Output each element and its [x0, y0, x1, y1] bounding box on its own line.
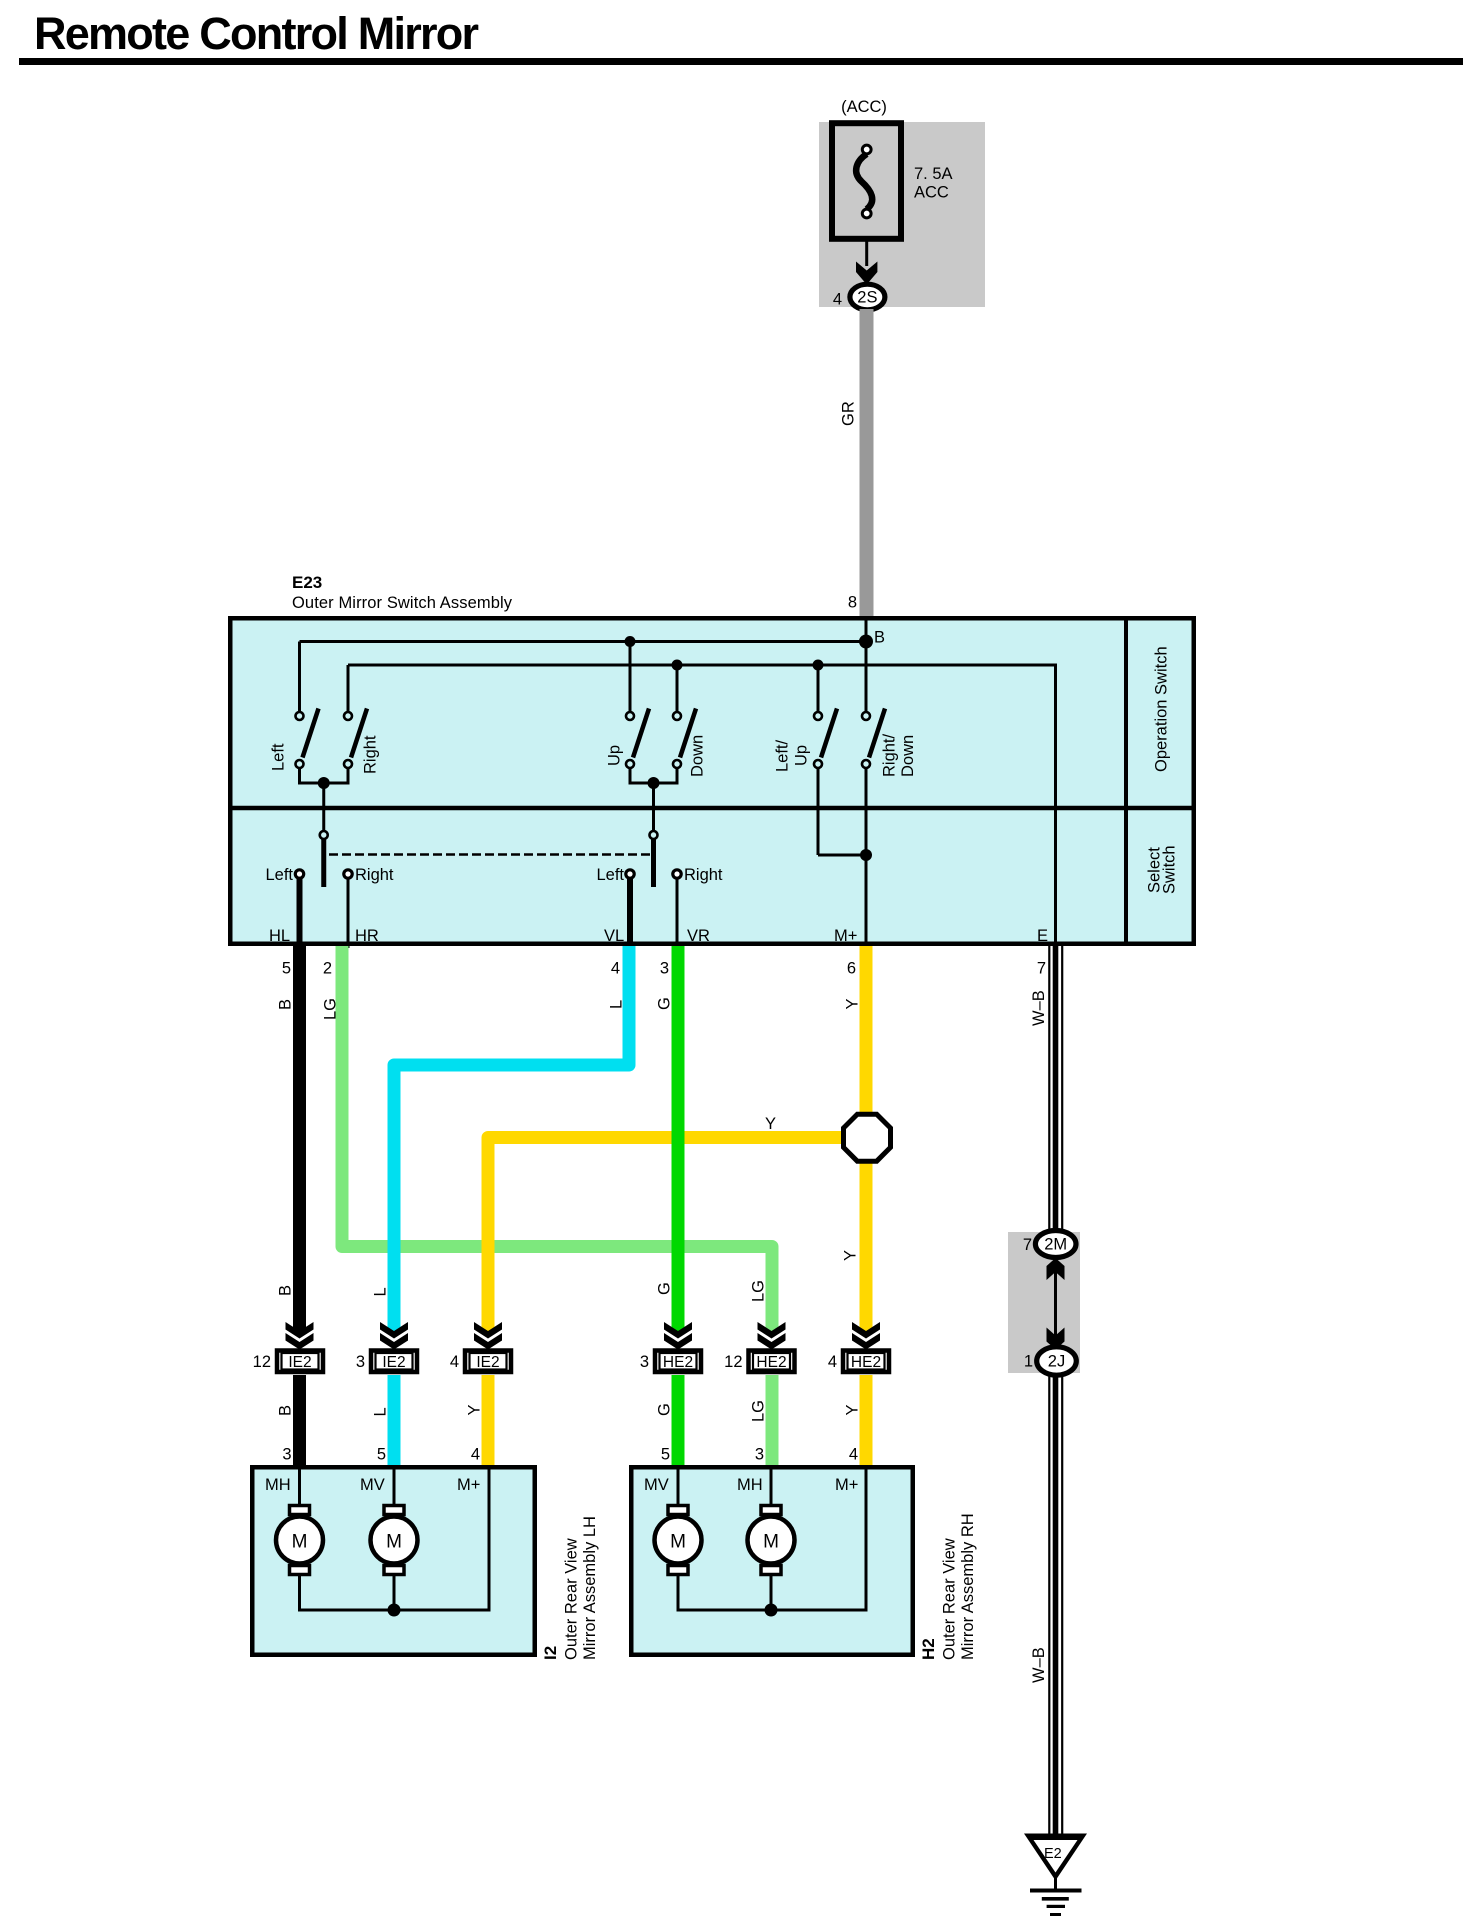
svg-text:Right/: Right/: [881, 733, 899, 777]
svg-text:5: 5: [282, 960, 291, 978]
svg-text:3: 3: [755, 1446, 764, 1464]
connector arrow IE2-4: [474, 1322, 502, 1350]
svg-text:M: M: [386, 1532, 402, 1553]
connector IE2 pin12: [253, 1351, 323, 1373]
svg-text:M: M: [670, 1532, 686, 1553]
svg-text:Left: Left: [265, 866, 293, 884]
label Right/Down: [881, 733, 918, 777]
ground stem: [1054, 1877, 1057, 1890]
svg-text:IE2: IE2: [476, 1354, 499, 1371]
ground bar 3: [1047, 1905, 1065, 1908]
switch Left/Up: [814, 709, 837, 769]
mirror assembly RH box H2: [631, 1467, 913, 1655]
svg-text:Up: Up: [606, 745, 624, 766]
wire MV lead (RH): [677, 1467, 680, 1505]
svg-text:LG: LG: [322, 998, 340, 1020]
svg-text:Down: Down: [689, 735, 707, 777]
svg-text:L: L: [372, 1407, 390, 1416]
label Left/Up: [774, 739, 811, 772]
wire G (VR to HE2-3): [672, 946, 685, 1466]
svg-text:4: 4: [471, 1446, 480, 1464]
svg-text:Y: Y: [844, 1404, 862, 1415]
wire B black (HL to IE2-12): [293, 946, 306, 1466]
svg-text:Left: Left: [270, 743, 288, 771]
svg-text:MH: MH: [737, 1476, 763, 1494]
svg-text:M+: M+: [834, 927, 857, 945]
svg-text:Right: Right: [362, 735, 380, 774]
motor M vertical (RH): [655, 1506, 702, 1575]
connector arrow IE2-12: [286, 1322, 314, 1350]
svg-text:Left/: Left/: [774, 739, 792, 772]
right column separator: [1124, 616, 1128, 946]
svg-text:4: 4: [450, 1353, 459, 1371]
fuse 7.5A ACC box: [832, 123, 901, 239]
connector HE2 pin4: [828, 1351, 889, 1373]
svg-text:Right: Right: [684, 866, 723, 884]
svg-text:Remote Control Mirror: Remote Control Mirror: [34, 8, 479, 59]
select switch right group: [650, 831, 658, 887]
wire W-B segment lower: [1048, 1375, 1063, 1835]
svg-text:G: G: [656, 1403, 674, 1416]
wire MH lead (LH): [298, 1467, 301, 1505]
svg-text:Up: Up: [793, 745, 811, 766]
wire MV lead (LH): [393, 1467, 396, 1505]
connector IE2 pin3: [356, 1351, 417, 1373]
svg-text:2S: 2S: [857, 289, 877, 307]
wire dropper LeftUp: [817, 665, 820, 712]
svg-text:8: 8: [848, 594, 857, 612]
connector 2S: [850, 284, 885, 310]
svg-text:HL: HL: [269, 927, 290, 945]
svg-text:HE2: HE2: [663, 1354, 693, 1371]
svg-text:B: B: [874, 629, 885, 647]
svg-text:GR: GR: [840, 401, 858, 426]
ground bar 1: [1030, 1889, 1082, 1893]
switch Right: [344, 709, 367, 769]
wire dropper Down: [676, 665, 679, 712]
junction dot bus2/Down: [672, 660, 683, 671]
wire Y branch horizontal: [488, 1131, 843, 1144]
wire dropper B to RightDown: [865, 618, 868, 712]
svg-text:E: E: [1037, 927, 1048, 945]
svg-text:M+: M+: [835, 1476, 858, 1494]
svg-text:G: G: [656, 997, 674, 1010]
divider operation/select: [228, 806, 1196, 811]
svg-text:B: B: [277, 1285, 295, 1296]
node B: [859, 629, 885, 649]
svg-text:7: 7: [1037, 960, 1046, 978]
svg-text:MV: MV: [360, 1476, 385, 1494]
svg-text:MV: MV: [644, 1476, 669, 1494]
select switch left group: [320, 831, 328, 887]
wire dropper Left: [298, 642, 301, 713]
svg-text:E23: E23: [292, 573, 322, 592]
svg-text:M: M: [763, 1532, 779, 1553]
motor M horizontal (RH): [748, 1506, 795, 1575]
wire LG (HR to HE2-12): [342, 946, 772, 1466]
svg-text:2J: 2J: [1048, 1353, 1065, 1371]
svg-text:4: 4: [611, 960, 620, 978]
switch Up: [626, 709, 649, 769]
select contact Left (VL): [596, 866, 634, 948]
connector HE2 pin12: [724, 1351, 794, 1373]
title rule: [19, 58, 1463, 65]
svg-text:M: M: [292, 1532, 308, 1553]
svg-text:Left: Left: [596, 866, 624, 884]
svg-text:Switch: Switch: [1161, 845, 1179, 894]
svg-text:7. 5A: 7. 5A: [914, 165, 953, 183]
svg-text:12: 12: [724, 1353, 742, 1371]
connector arrow HE2-3: [664, 1322, 692, 1350]
svg-text:B: B: [277, 1405, 295, 1416]
svg-text:ACC: ACC: [914, 184, 949, 202]
svg-text:Y: Y: [466, 1404, 484, 1415]
connector arrow HE2-12: [758, 1322, 786, 1350]
svg-text:4: 4: [849, 1446, 858, 1464]
motor M vertical (LH): [371, 1506, 418, 1575]
svg-text:Mirror Assembly RH: Mirror Assembly RH: [959, 1513, 977, 1660]
svg-text:Outer Rear View: Outer Rear View: [563, 1538, 581, 1660]
wire dropper Right: [347, 665, 350, 712]
wire motor commons (RH): [677, 1575, 868, 1617]
svg-text:L: L: [372, 1287, 390, 1296]
wire M+ lead (RH): [865, 1467, 868, 1610]
svg-text:HE2: HE2: [851, 1354, 881, 1371]
svg-text:7: 7: [1023, 1236, 1032, 1254]
connector arrow IE2-3: [380, 1322, 408, 1350]
svg-text:Y: Y: [842, 1250, 860, 1261]
wire motor commons (LH): [298, 1575, 491, 1617]
svg-text:4: 4: [828, 1353, 837, 1371]
arrow down (into 2J): [1047, 1328, 1065, 1350]
switch assembly box E23: [230, 618, 1194, 944]
bus wire 2: [348, 665, 1056, 946]
wire GR (gray): [860, 309, 874, 616]
connector arrow HE2-4: [852, 1322, 880, 1350]
svg-text:Y: Y: [765, 1115, 776, 1133]
wire Left/Right common: [298, 768, 350, 831]
label Select Switch: [1146, 845, 1179, 894]
svg-text:1: 1: [1024, 1353, 1033, 1371]
svg-text:M+: M+: [457, 1476, 480, 1494]
connector 2M: [1035, 1231, 1076, 1258]
svg-text:12: 12: [253, 1353, 271, 1371]
fuse value label 7.5A ACC: [914, 165, 953, 202]
wire Y branch vertical (to IE2-4): [488, 1138, 843, 1467]
svg-text:W–B: W–B: [1030, 1647, 1048, 1683]
wire L cyan (VL to IE2-3): [394, 946, 629, 1466]
svg-text:4: 4: [833, 291, 842, 309]
splice octagon: [844, 1114, 891, 1161]
wire MH lead (RH): [770, 1467, 773, 1505]
connector IE2 pin4: [450, 1351, 511, 1373]
svg-text:5: 5: [377, 1446, 386, 1464]
svg-text:2M: 2M: [1044, 1236, 1067, 1254]
svg-text:5: 5: [661, 1446, 670, 1464]
ground E2 triangle: [1024, 1834, 1087, 1881]
svg-text:G: G: [656, 1282, 674, 1295]
svg-text:LG: LG: [750, 1280, 768, 1302]
svg-text:H2: H2: [919, 1638, 938, 1660]
junction block panel 2M/2J (gray): [1008, 1232, 1080, 1373]
svg-text:IE2: IE2: [382, 1354, 405, 1371]
svg-text:Mirror Assembly LH: Mirror Assembly LH: [581, 1516, 599, 1660]
mechanical link (dashed): [329, 853, 650, 856]
svg-text:3: 3: [356, 1353, 365, 1371]
wire dropper Up: [629, 642, 632, 713]
svg-text:L: L: [608, 1000, 626, 1009]
svg-text:HR: HR: [355, 927, 379, 945]
svg-text:Outer Rear View: Outer Rear View: [941, 1538, 959, 1660]
svg-text:W–B: W–B: [1030, 990, 1048, 1026]
motor M horizontal (LH): [276, 1506, 323, 1575]
svg-text:I2: I2: [541, 1646, 560, 1660]
svg-text:2: 2: [323, 960, 332, 978]
svg-text:MH: MH: [265, 1476, 291, 1494]
switch Down: [673, 709, 696, 769]
svg-text:3: 3: [282, 1446, 291, 1464]
svg-text:3: 3: [660, 960, 669, 978]
select contact Left (HL): [265, 866, 303, 948]
wire Up/Down common: [629, 768, 679, 831]
svg-text:B: B: [277, 999, 295, 1010]
select contact Right (HR): [344, 866, 394, 948]
svg-text:LG: LG: [750, 1400, 768, 1422]
wire W-B segment upper: [1048, 946, 1063, 1231]
svg-text:Y: Y: [844, 998, 862, 1009]
junction dot bus1/Up: [625, 636, 636, 647]
svg-text:VL: VL: [604, 927, 624, 945]
label Outer Rear View Mirror Assembly LH: [563, 1516, 600, 1660]
junction block panel (gray): [819, 122, 985, 307]
wire Y main (M+ to HE2-4): [860, 946, 873, 1466]
connector HE2 pin3: [640, 1351, 701, 1373]
svg-text:E2: E2: [1044, 1846, 1062, 1862]
wire between 2M and 2J: [1054, 1272, 1057, 1336]
svg-text:VR: VR: [687, 927, 710, 945]
switch Left: [296, 709, 319, 769]
svg-text:HE2: HE2: [756, 1354, 786, 1371]
svg-text:Down: Down: [899, 735, 917, 777]
svg-text:3: 3: [640, 1353, 649, 1371]
arrow up (2J to 2M): [1047, 1258, 1065, 1280]
wire Left/Up to M+: [818, 768, 872, 861]
connector 2J: [1037, 1347, 1077, 1375]
junction dot bus2/LeftUp: [813, 660, 824, 671]
label Outer Rear View Mirror Assembly RH: [941, 1513, 978, 1660]
svg-text:Operation Switch: Operation Switch: [1153, 646, 1171, 772]
wire fuse to 2S: [865, 238, 868, 266]
wire M+ lead (LH): [488, 1467, 491, 1610]
fuse element: [856, 145, 872, 218]
bus wire B (top): [300, 640, 867, 643]
wire M+ column: [865, 768, 868, 948]
svg-text:Outer Mirror Switch Assembly: Outer Mirror Switch Assembly: [292, 594, 513, 612]
svg-text:IE2: IE2: [288, 1354, 311, 1371]
mirror assembly LH box I2: [252, 1467, 535, 1655]
ground bar 4: [1050, 1913, 1061, 1916]
select contact Right (VR): [673, 866, 723, 948]
ground bar 2: [1042, 1897, 1069, 1901]
svg-text:(ACC): (ACC): [841, 98, 887, 116]
switch Right/Down: [862, 709, 885, 769]
arrow into 2S: [856, 262, 877, 285]
svg-text:6: 6: [847, 960, 856, 978]
svg-text:Right: Right: [355, 866, 394, 884]
